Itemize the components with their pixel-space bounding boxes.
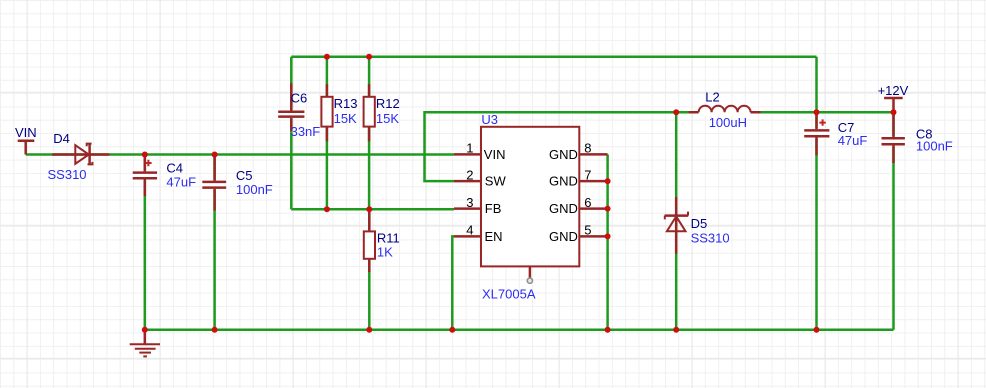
wire top rail: [291, 56, 816, 59]
svg-text:R13: R13: [334, 96, 358, 111]
svg-text:8: 8: [584, 141, 591, 156]
svg-text:GND: GND: [549, 174, 578, 189]
junction C7 top: [814, 109, 820, 115]
svg-text:100nF: 100nF: [916, 139, 953, 154]
diode D4 SS310: [52, 144, 109, 165]
wire C4 branch: [144, 155, 147, 330]
svg-text:1K: 1K: [377, 245, 393, 260]
net flag +12V: [884, 98, 903, 112]
net flag VIN: [18, 141, 35, 155]
wire R12 vertical: [368, 57, 371, 209]
junction rail C5: [212, 327, 218, 333]
wire C8 branch: [892, 112, 895, 329]
svg-text:VIN: VIN: [484, 147, 506, 162]
svg-text:VIN: VIN: [15, 125, 37, 140]
svg-text:+12V: +12V: [878, 83, 909, 98]
svg-text:D5: D5: [691, 216, 708, 231]
svg-text:GND: GND: [549, 201, 578, 216]
op-amp U3 XL7005A body: [481, 127, 579, 267]
svg-text:L2: L2: [705, 90, 719, 105]
svg-text:SS310: SS310: [48, 167, 87, 182]
wire C5 branch: [213, 155, 216, 330]
svg-text:C4: C4: [166, 161, 183, 176]
pin 9 exposed pad stub: [529, 266, 532, 278]
svg-text:FB: FB: [485, 201, 502, 216]
svg-text:EN: EN: [485, 229, 503, 244]
svg-text:C5: C5: [236, 168, 253, 183]
pin 7 GND: [579, 180, 607, 183]
junction GND5: [605, 233, 611, 239]
svg-text:3: 3: [466, 195, 473, 210]
ground: [130, 330, 160, 357]
junction C5-VIN: [212, 152, 218, 158]
svg-text:1: 1: [466, 141, 473, 156]
capacitor C7 47uF polarized: [803, 112, 830, 155]
junction GND6: [605, 206, 611, 212]
pin 3 FB: [454, 207, 481, 210]
svg-text:SW: SW: [485, 174, 507, 189]
pin 8 GND: [579, 153, 607, 156]
inductor L2 100uH: [689, 106, 761, 116]
svg-text:2: 2: [466, 167, 473, 182]
junction R12 top: [366, 54, 372, 60]
capacitor C4 47uF polarized: [132, 155, 159, 197]
junction R12-R11-FB: [366, 206, 372, 212]
pin 1 VIN: [454, 153, 481, 156]
svg-text:100nF: 100nF: [236, 182, 273, 197]
svg-text:C6: C6: [291, 90, 308, 105]
resistor R12 15K: [364, 84, 375, 141]
wire bottom rail: [145, 329, 894, 332]
svg-text:15K: 15K: [334, 111, 357, 126]
wire D5 branch: [675, 112, 678, 329]
pin 5 GND: [579, 235, 607, 238]
junction rail D5: [673, 327, 679, 333]
junction C4-VIN: [142, 152, 148, 158]
junction SW-D5: [673, 109, 679, 115]
wire FB line: [291, 208, 454, 211]
junction GND7: [605, 178, 611, 184]
junction rail C7: [814, 327, 820, 333]
resistor R13 15K: [321, 84, 332, 141]
capacitor C5 100nF: [201, 155, 228, 211]
svg-text:47uF: 47uF: [166, 175, 196, 190]
svg-text:7: 7: [584, 167, 591, 182]
pin 4 EN: [454, 235, 481, 238]
wire VIN line: [26, 153, 454, 156]
svg-text:GND: GND: [549, 229, 578, 244]
wire GND riser: [606, 154, 609, 329]
junction rail EN: [449, 327, 455, 333]
wire R13 vertical: [326, 57, 329, 209]
diode D5 SS310: [665, 197, 689, 254]
junction rail GND riser: [605, 327, 611, 333]
wire SW route: [425, 112, 894, 181]
wire R11 vertical: [368, 209, 371, 330]
svg-text:GND: GND: [549, 147, 578, 162]
svg-text:D4: D4: [53, 131, 70, 146]
svg-text:15K: 15K: [376, 111, 399, 126]
junction R13 top: [324, 54, 330, 60]
svg-text:XL7005A: XL7005A: [482, 286, 536, 301]
wire top rail drop and C7 branch: [815, 57, 818, 330]
svg-text:4: 4: [466, 223, 473, 238]
resistor R11 1K: [364, 212, 375, 272]
junction rail R11: [366, 327, 372, 333]
svg-text:U3: U3: [481, 112, 498, 127]
svg-text:5: 5: [584, 223, 591, 238]
junction R13-FB: [324, 206, 330, 212]
svg-text:100uH: 100uH: [709, 115, 747, 130]
svg-text:33nF: 33nF: [291, 124, 321, 139]
capacitor C8 100nF: [881, 112, 907, 163]
svg-text:SS310: SS310: [691, 231, 730, 246]
svg-text:47uF: 47uF: [838, 133, 868, 148]
svg-text:R11: R11: [377, 231, 400, 246]
svg-text:R12: R12: [376, 96, 400, 111]
pin 2 SW: [454, 180, 481, 183]
capacitor C6 33nF: [277, 83, 305, 131]
pin 6 GND: [579, 207, 607, 210]
svg-text:6: 6: [584, 195, 591, 210]
wire C6 vertical: [290, 57, 293, 209]
junction rail ground: [142, 327, 148, 333]
wire EN route: [452, 236, 454, 329]
junction +12V-C8: [891, 109, 897, 115]
